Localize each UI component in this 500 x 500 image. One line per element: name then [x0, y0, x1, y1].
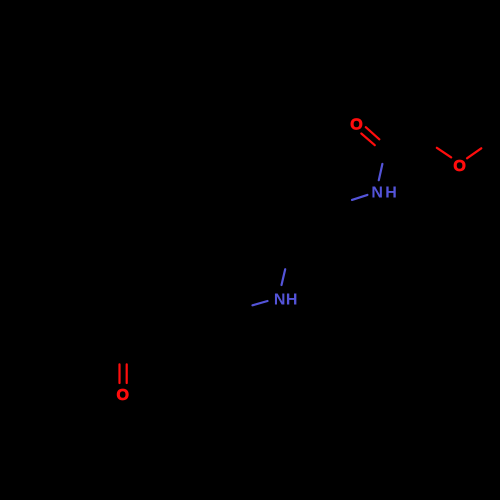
- svg-text:O: O: [350, 117, 362, 134]
- ketone C=O line 1: [118, 364, 120, 383]
- amide C=O line 1: [366, 127, 380, 139]
- amide C=O line 2: [361, 134, 375, 146]
- svg-text:H: H: [385, 185, 397, 202]
- amide C-N half-bond: [379, 164, 383, 180]
- carbonyl C to CH2: [391, 138, 422, 151]
- svg-text:O: O: [453, 158, 465, 175]
- ketone C=O double bond (red halves): [120, 127, 482, 383]
- aryl ring right: [158, 276, 218, 344]
- svg-text:O: O: [116, 387, 128, 404]
- CH2-O black half: [422, 138, 436, 148]
- svg-text:N: N: [371, 185, 383, 202]
- amine N up half-bond: [282, 269, 286, 285]
- amide N-CH2 half-bond: [352, 195, 367, 200]
- ketone C=O line 2: [126, 364, 128, 383]
- bond phenyl to ketone C: [88, 327, 123, 346]
- amine N left half-bond: [253, 301, 268, 305]
- svg-text:H: H: [286, 292, 298, 309]
- invisible carbon skeleton (black on black): [37, 138, 496, 346]
- ether O right half-bond: [467, 148, 481, 158]
- O-CH3 black half: [481, 138, 495, 148]
- bond ketone C to aryl ring: [123, 327, 158, 346]
- bond aryl to amine C: [218, 293, 238, 310]
- phenyl ring left: [37, 269, 105, 327]
- blue nitrogen half-bonds: [253, 164, 383, 305]
- ether O left half-bond: [437, 148, 451, 158]
- svg-text:N: N: [274, 292, 286, 309]
- chain carbons: [289, 205, 337, 253]
